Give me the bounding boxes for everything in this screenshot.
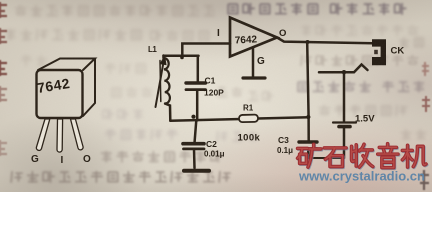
svg-text:www.crystalradio.cn: www.crystalradio.cn bbox=[298, 169, 425, 184]
IC package 7642 (TO-92 drawing) bbox=[31, 59, 95, 167]
wire: top rail of LC tank bbox=[164, 55, 199, 58]
resistor R1 100k bbox=[238, 104, 261, 144]
capacitor C2 bbox=[183, 120, 225, 168]
node: R1 wire / C3 junction bbox=[306, 115, 310, 119]
node: battery / switch arm junction bbox=[342, 70, 346, 74]
capacitor C1 120P bbox=[186, 56, 224, 121]
wire: tank to amplifier input, with corner bbox=[182, 44, 230, 56]
wire: amplifier output to jack bbox=[277, 38, 373, 44]
capacitor C3 bbox=[277, 135, 317, 158]
wire: output down to R1 junction and C3 bbox=[307, 43, 309, 141]
ground symbol under C2 bbox=[184, 169, 209, 173]
wire: bottom rail (tank bottom to R1 to output divider) bbox=[170, 117, 309, 120]
op-amp U1 7642 (TRF IC triangle) bbox=[217, 18, 286, 57]
node: tank top / stub junction bbox=[180, 56, 184, 60]
wire: hidden bottom rail C3 to battery bbox=[308, 157, 344, 159]
jack switch arm bbox=[319, 65, 368, 73]
ground symbol under U1 bbox=[243, 76, 265, 79]
node: output/divider junction bbox=[306, 40, 310, 44]
node: C2 junction on bottom rail bbox=[191, 115, 195, 119]
battery B1 1.5V bbox=[333, 72, 375, 158]
earphone jack CK bbox=[372, 39, 404, 65]
inductor L1 (adjustable antenna coil) bbox=[148, 45, 170, 121]
pin G of U1 to ground bbox=[253, 48, 265, 77]
